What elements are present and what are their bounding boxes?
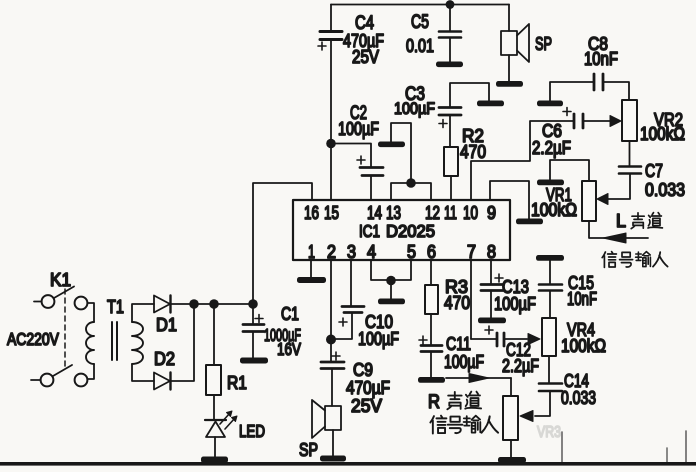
capacitor C2 [331,144,383,201]
wire: pin 7 down to C12 [470,260,472,339]
svg-text:L: L [616,210,626,231]
capacitor C13 [481,285,503,319]
svg-text:16V: 16V [277,339,301,359]
bottom border line [0,462,696,466]
polarity + of C2 [357,156,365,164]
polarity + of C1 [255,315,263,323]
svg-text:100kΩ: 100kΩ [640,124,685,144]
IC U1 D2025 package [293,200,510,260]
potentiometer VR2 [622,100,637,141]
resistor R1 [206,304,221,419]
svg-text:D1: D1 [156,314,177,335]
svg-text:C7: C7 [645,160,663,181]
node: junction dot pins 4/5 [386,276,396,286]
node: dot D1/D2 join [189,299,199,309]
polarity + of C9 [332,352,340,360]
svg-text:T1: T1 [107,296,124,317]
svg-text:100µF: 100µF [338,118,379,139]
core [112,322,117,360]
potentiometer VR1 [582,181,596,221]
svg-text:1: 1 [308,242,315,262]
svg-text:0.01: 0.01 [406,36,434,56]
label signal input (R) [430,416,498,434]
svg-text:K1: K1 [50,269,71,290]
stray mark: faint vertical line right 1 [666,448,668,462]
svg-text:C11: C11 [446,333,471,354]
stray mark: short vertical line near VR3 label [561,432,563,462]
arrow L signal input [603,233,626,243]
stray mark: faint vertical line right 2 [685,431,687,462]
svg-text:SP: SP [535,33,552,54]
wire: R channel input line [446,377,511,379]
svg-text:9: 9 [487,203,496,223]
svg-text:4: 4 [367,242,376,262]
primary winding [88,303,95,322]
speaker SP (L channel) [501,5,529,82]
capacitor C14 [535,356,562,416]
node: supply junction dot above IC pin15 [326,139,336,149]
ground for C13 [478,318,506,324]
ground for VR1 top [537,180,564,186]
arrow into VR2 wiper [610,116,621,127]
ground for VR3 [498,457,526,463]
speaker SP (R channel) [312,400,341,456]
polarity + of C11 [419,336,427,344]
node: junction dot on top rail at C5 [446,0,455,9]
svg-text:LED: LED [239,421,265,441]
svg-text:10nF: 10nF [584,49,618,69]
capacitor C11 [421,314,442,377]
svg-text:5: 5 [407,242,416,262]
wire: power rail to IC pin 16 [253,183,312,304]
svg-text:AC220V: AC220V [7,329,59,349]
svg-text:11: 11 [444,203,457,223]
svg-text:R: R [428,392,440,413]
svg-text:IC1: IC1 [359,221,380,241]
LED D3 [205,411,237,457]
secondary winding [132,322,143,364]
wire: rectified DC node [194,303,253,305]
svg-text:470: 470 [460,141,486,162]
ground above C15 [536,255,564,261]
wire: pins 12,13 tied [391,183,431,200]
ground for pins 12/13 [378,142,405,148]
wire: pin 6 down [430,260,432,285]
svg-text:100kΩ: 100kΩ [531,200,577,220]
resistor R2 [444,147,458,176]
svg-text:12: 12 [425,203,440,223]
ground for pin 9 [516,219,543,225]
node: dot R1 branch [209,299,219,309]
wire: pin4/5 node to ground [390,280,392,299]
capacitor C6 [574,114,612,128]
switch K1 [31,287,87,387]
potentiometer VR4 [542,318,556,356]
svg-text:7: 7 [467,242,476,262]
arrow R signal input [469,374,489,383]
diode D1 [154,296,194,313]
capacitor C8 [550,74,629,101]
wire: supply dot to pin 15 [330,144,332,201]
label signal input (L) [602,252,616,268]
svg-text:C1: C1 [281,303,299,324]
ground under C1 [240,358,268,364]
ground for pins 4/5 [378,299,405,305]
capacitor C3 [439,83,489,147]
polarity + of C4 [318,42,326,50]
polarity + of C3 [439,120,447,128]
svg-text:D2: D2 [154,348,175,369]
node: dot C1 branch [248,299,258,309]
svg-text:SP: SP [299,439,318,460]
svg-text:470µF: 470µF [346,378,390,398]
svg-text:R1: R1 [227,372,247,393]
ground for C3 [477,101,504,107]
wire: VR3 bottom to ground [510,440,512,458]
ground under SP (R) [320,456,346,462]
svg-text:100kΩ: 100kΩ [561,336,606,356]
ground under SP (L) [496,81,523,87]
capacitor C5 [439,5,461,63]
svg-text:14: 14 [367,203,382,223]
resistor R3 [425,285,438,314]
wire: pin12/13 node riser to ground [391,123,411,183]
svg-text:0.033: 0.033 [561,388,596,408]
wire: top supply rail [331,4,509,6]
wire: pin 2 down to C9 [330,260,332,361]
arrow into VR1 wiper [597,194,608,205]
ground for C11 [418,377,445,383]
wire: pin 1 to ground [310,260,312,277]
polarity + of C10 [339,318,347,326]
svg-text:C9: C9 [353,359,373,380]
svg-text:470: 470 [444,292,470,313]
ground for pin 1 [297,277,326,283]
svg-text:25V: 25V [352,46,380,67]
wire: VR3 top to R input line [510,378,512,396]
svg-text:8: 8 [487,242,496,262]
svg-text:2.2µF: 2.2µF [502,356,539,376]
wire: pin 10 to C6 [471,121,573,200]
arrow into VR3 wiper [520,411,533,422]
svg-text:25V: 25V [351,396,382,416]
wire: VR1 bottom to L input [589,221,648,238]
node: junction dot pin2/C10 [326,335,336,345]
capacitor C10 [331,260,364,339]
svg-text:D2025: D2025 [386,221,435,241]
capacitor C1 [243,304,264,358]
arrow into VR4 wiper [528,334,540,345]
wire: R2 to pin 11 [450,176,452,200]
capacitor C4 [320,5,342,143]
svg-text:3: 3 [347,242,356,262]
transformer T1 [86,303,154,381]
svg-text:2.2µF: 2.2µF [532,138,571,158]
capacitor C15 [539,260,562,318]
svg-text:6: 6 [427,242,436,262]
node: junction dot pins 12/13 [406,178,416,188]
ground under C5 [436,62,463,68]
wire: VR1 top to ground [550,160,589,181]
polarity + of C6 [563,108,571,116]
svg-text:10nF: 10nF [567,289,597,309]
svg-text:16: 16 [304,203,319,223]
polarity + of C13 [495,274,503,282]
ground under LED [201,457,228,463]
svg-text:C5: C5 [411,12,429,33]
svg-text:100µF: 100µF [394,99,435,118]
svg-text:15: 15 [324,203,339,223]
svg-text:10: 10 [463,203,478,223]
polarity + of C12 [485,326,493,334]
capacitor C9 [321,362,344,406]
svg-text:VR3: VR3 [537,424,561,441]
ground for C8 [537,101,563,107]
diode D2 [154,304,194,390]
svg-text:100µF: 100µF [494,294,536,314]
svg-text:100µF: 100µF [444,352,484,372]
svg-text:0.033: 0.033 [645,180,685,200]
wire: pin 8 down [490,260,492,284]
wire: pin 9 to ground [490,181,529,219]
svg-text:2: 2 [327,242,336,262]
capacitor C12 [471,333,527,346]
potentiometer VR3 [503,396,518,440]
wire: pins 4,5 tied [371,260,411,280]
svg-text:100µF: 100µF [358,329,399,349]
svg-text:13: 13 [386,203,401,223]
capacitor C7 [608,141,641,199]
